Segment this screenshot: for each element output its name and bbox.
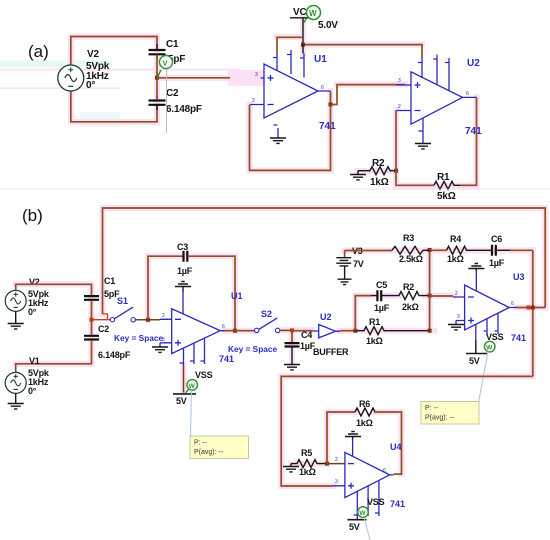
svg-text:V1: V1	[29, 356, 40, 366]
svg-text:W: W	[486, 345, 493, 352]
svg-text:1kΩ: 1kΩ	[356, 418, 373, 428]
svg-text:741: 741	[319, 121, 336, 132]
svg-text:R1: R1	[369, 317, 380, 327]
switch S1	[110, 296, 163, 343]
svg-text:V2: V2	[87, 49, 99, 60]
probe W at U4 VSS	[358, 507, 369, 518]
capacitor C5	[371, 280, 390, 313]
node: U1 out junction	[329, 103, 333, 107]
probe W at U3 VSS	[484, 341, 495, 352]
resistor R2 (a)	[358, 158, 396, 188]
svg-text:7V: 7V	[353, 259, 364, 269]
AC source V2 (part b)	[5, 290, 26, 311]
node: U1b output to C3 junction	[233, 329, 237, 333]
wire: big feedback top rail	[103, 208, 546, 314]
node: C4 junction	[290, 328, 294, 332]
svg-text:1kΩ: 1kΩ	[366, 336, 383, 346]
wire: V2a loop top	[71, 37, 157, 66]
svg-text:0°: 0°	[28, 386, 37, 396]
svg-text:6.148pF: 6.148pF	[166, 104, 202, 115]
svg-text:6: 6	[321, 85, 324, 91]
svg-text:1µF: 1µF	[374, 303, 390, 313]
wire: U3 output row	[516, 307, 545, 309]
wire halos part b	[16, 208, 546, 486]
resistor R1 (a)	[434, 172, 460, 202]
svg-text:3: 3	[335, 479, 338, 485]
wire: right vertical through U3 out	[532, 250, 534, 376]
probe W at U1b VSS	[186, 380, 198, 393]
svg-text:5V: 5V	[176, 396, 187, 406]
svg-text:U3: U3	[513, 272, 525, 282]
svg-text:(b): (b)	[22, 206, 43, 225]
switch S2	[228, 309, 280, 354]
ground above U3 (pin 7)	[468, 264, 484, 292]
capacitor C2 (b)	[84, 324, 131, 360]
svg-text:C3: C3	[177, 242, 188, 252]
op-amp U2 (part a)	[396, 55, 477, 144]
capacitor C1 (a)	[149, 39, 186, 65]
wire: VCC lead to U1 top pin	[302, 45, 304, 54]
svg-text:R6: R6	[359, 399, 370, 409]
capacitor C2 (a)	[149, 88, 202, 115]
node: buffer out junction	[353, 329, 357, 333]
node: C1/C2 junction (b) red	[90, 318, 94, 322]
wire: C6 to right vertical	[510, 249, 533, 251]
resistor R5	[291, 448, 327, 477]
wire: C5 branch vertical	[355, 296, 371, 331]
wire: buffer out to R1b junction	[340, 330, 355, 332]
node: R5/R6 junction	[325, 462, 329, 466]
resistor R6 feedback	[327, 399, 402, 474]
resistor R3	[392, 233, 430, 264]
svg-text:1µF: 1µF	[489, 258, 505, 268]
capacitor C3 feedback	[148, 242, 235, 331]
wire: top resistor row	[345, 250, 392, 252]
ground under V1	[8, 393, 24, 409]
svg-text:VSS: VSS	[367, 497, 385, 507]
svg-text:5kΩ: 5kΩ	[437, 191, 456, 202]
svg-text:U4: U4	[390, 442, 402, 452]
svg-text:6: 6	[222, 324, 225, 330]
wire: middle vertical R3-R2-R1	[429, 250, 431, 331]
capacitor C4	[284, 330, 316, 370]
svg-text:V: V	[163, 59, 168, 68]
svg-text:C2: C2	[166, 88, 179, 99]
wire: R4 to C6	[470, 249, 492, 251]
svg-text:U1: U1	[231, 291, 243, 301]
ground above U4 (pin 7)	[345, 432, 361, 457]
svg-text:R4: R4	[450, 234, 461, 244]
VSS pin wire U3	[475, 324, 477, 340]
svg-text:C1: C1	[166, 39, 179, 50]
AC source V2 (part a)	[58, 65, 84, 91]
node: VCC junction	[301, 43, 305, 47]
svg-text:W: W	[189, 383, 196, 390]
svg-text:P: --: P: --	[425, 405, 439, 412]
wire: U1 out to U2 plus	[331, 85, 406, 105]
svg-text:1µF: 1µF	[177, 266, 193, 276]
measurement box 2	[421, 402, 479, 425]
svg-text:VSS: VSS	[195, 370, 213, 380]
capacitor C6	[489, 234, 510, 268]
VSS bar and label U1b	[173, 370, 213, 406]
svg-text:S1: S1	[117, 296, 128, 306]
svg-text:U1: U1	[314, 54, 327, 65]
capacitor C1 (b)	[84, 276, 120, 300]
svg-text:2: 2	[398, 104, 401, 110]
op-amp U4	[333, 452, 394, 519]
wire: C1 to junction	[156, 55, 158, 78]
probe V (part a)	[158, 56, 173, 78]
artifact streaks	[0, 61, 112, 68]
svg-text:VSS: VSS	[486, 332, 504, 342]
wire: U1 feedback loop	[250, 105, 331, 171]
svg-text:1kΩ: 1kΩ	[299, 467, 316, 477]
wire: S1 to U1b minus	[135, 319, 160, 321]
svg-text:2kΩ: 2kΩ	[402, 302, 419, 312]
ground under U2a	[415, 144, 431, 149]
svg-text:R5: R5	[301, 448, 312, 458]
wire: U1b output to S2	[225, 330, 255, 332]
svg-text:2: 2	[455, 291, 458, 297]
svg-text:2: 2	[335, 457, 338, 463]
svg-text:C6: C6	[491, 234, 502, 244]
svg-text:6.148pF: 6.148pF	[98, 350, 131, 360]
svg-text:R3: R3	[403, 233, 414, 243]
svg-text:Key = Space: Key = Space	[114, 333, 164, 343]
svg-text:R2: R2	[403, 282, 414, 292]
AC source V1 (part b)	[5, 372, 26, 393]
VSS bar U3	[466, 332, 504, 366]
svg-text:741: 741	[219, 354, 234, 364]
ground under V2b	[8, 311, 24, 329]
node: U3 out junctions	[527, 306, 531, 310]
svg-text:P(avg): --: P(avg): --	[194, 449, 224, 456]
wire: R2 junction to U3 minus	[430, 295, 453, 297]
svg-text:3: 3	[398, 78, 401, 84]
wire: V2b to C1b	[16, 284, 92, 295]
connector line to measurement box 2	[479, 352, 488, 403]
ground at R2	[350, 171, 366, 180]
svg-text:P(avg): --: P(avg): --	[425, 415, 455, 422]
wire halos part a	[71, 18, 477, 186]
svg-text:2: 2	[252, 98, 255, 104]
wire: R3 junction to R4	[430, 249, 447, 251]
wire red: rail leg step to S1	[103, 314, 108, 320]
node: R2/R1 junction	[394, 169, 398, 173]
svg-text:6: 6	[466, 91, 469, 97]
node: R3/R4 junction	[428, 248, 432, 252]
svg-text:P: --: P: --	[194, 440, 208, 447]
battery V3	[336, 246, 364, 285]
wire: junction down to R1 row	[396, 171, 434, 186]
svg-text:2.5kΩ: 2.5kΩ	[399, 254, 423, 264]
connector line to measurement box 1	[191, 390, 192, 437]
svg-text:3: 3	[162, 337, 165, 343]
wire: VCC rail to U2 pin7	[303, 45, 422, 58]
wire: junction up to U2 minus	[395, 111, 397, 171]
VSS bar U4	[347, 497, 384, 532]
op-amp U1 (part b)	[160, 309, 225, 366]
wire red: junction to S1	[92, 319, 111, 321]
wire: C4 junction to buffer	[292, 330, 313, 332]
wire: U1 output to junction	[330, 91, 332, 105]
resistor R1 (b)	[355, 317, 429, 346]
svg-text:3: 3	[457, 314, 460, 320]
svg-text:6: 6	[383, 468, 386, 474]
svg-text:U2: U2	[320, 312, 332, 322]
node: R1 right junction	[428, 329, 432, 333]
ground above U1b (pin 7)	[175, 282, 191, 314]
op-amp U1 (part a)	[250, 50, 331, 138]
wire: junction to C2b	[91, 320, 93, 336]
wire: V2a loop bottom	[71, 91, 157, 122]
svg-text:S2: S2	[261, 309, 272, 319]
ground at U3 plus input	[448, 321, 464, 330]
svg-text:1kΩ: 1kΩ	[447, 254, 464, 264]
node: C1/C2 junction (a)	[155, 76, 159, 80]
ground at R5	[283, 464, 299, 472]
svg-text:BUFFER: BUFFER	[313, 347, 349, 357]
svg-text:3: 3	[255, 72, 258, 78]
wire: C2b to V1	[16, 340, 92, 372]
svg-text:(a): (a)	[28, 42, 49, 61]
svg-text:V2: V2	[29, 277, 40, 287]
wire: bottom rail to U4	[281, 376, 533, 486]
probe pointer line	[166, 69, 168, 134]
svg-text:0°: 0°	[28, 307, 37, 317]
resistor R2 (b)	[388, 282, 430, 312]
measurement box 1	[190, 436, 249, 459]
svg-text:C5: C5	[376, 280, 387, 290]
svg-text:0°: 0°	[86, 80, 95, 91]
wire: C1b to junction	[91, 300, 93, 319]
wire: junction to U4 minus	[327, 463, 345, 465]
svg-text:1kΩ: 1kΩ	[370, 177, 389, 188]
svg-text:741: 741	[465, 126, 482, 137]
svg-text:741: 741	[390, 499, 405, 509]
svg-text:W: W	[359, 510, 366, 517]
svg-text:741: 741	[511, 333, 526, 343]
svg-text:R2: R2	[372, 158, 385, 169]
svg-text:5V: 5V	[349, 522, 360, 532]
svg-text:5V: 5V	[469, 356, 480, 366]
wire: R1 to U2 output	[460, 97, 477, 185]
ground at U1b plus input	[152, 343, 168, 353]
svg-text:W: W	[309, 9, 317, 18]
svg-text:6: 6	[511, 301, 514, 307]
wire: S2 to C4 junction	[280, 329, 292, 331]
VSS pin wire U1b	[183, 366, 185, 393]
wire: VCC to U1 pin7	[277, 37, 303, 53]
probe W on VCC	[304, 6, 321, 24]
svg-text:R1: R1	[437, 172, 450, 183]
svg-text:C1: C1	[104, 276, 115, 286]
VCC power	[290, 7, 338, 45]
wire: junction to C2	[156, 78, 158, 100]
resistor R4	[447, 234, 471, 264]
buffer U2 (part b)	[313, 312, 349, 357]
connector line from U4 probe	[364, 518, 370, 540]
op-amp U3	[453, 285, 516, 334]
node: C3 left leg junction	[146, 318, 150, 322]
svg-text:C2: C2	[98, 324, 109, 334]
svg-text:U2: U2	[467, 58, 480, 69]
ground under U1a	[270, 138, 286, 143]
svg-text:5.0V: 5.0V	[318, 20, 338, 31]
wire: junction to right	[157, 77, 230, 79]
svg-text:2: 2	[162, 313, 165, 319]
node: R2 right junction	[428, 294, 432, 298]
svg-text:Key = Space: Key = Space	[228, 344, 278, 354]
